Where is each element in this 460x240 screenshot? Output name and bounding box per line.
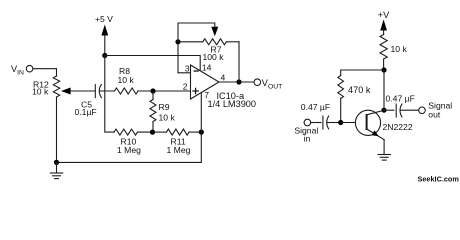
svg-text:SeekIC.com: SeekIC.com — [418, 175, 460, 184]
svg-text:1/4 LM3900: 1/4 LM3900 — [208, 99, 257, 109]
svg-text:0.47 µF: 0.47 µF — [301, 102, 330, 112]
svg-text:10 k: 10 k — [118, 75, 135, 85]
capacitor 0.47uF output — [384, 104, 419, 117]
resistor 10k element (right) — [380, 35, 387, 60]
svg-text:2N2222: 2N2222 — [383, 122, 413, 132]
wire base node to transistor — [341, 122, 367, 124]
wire +5V down to R10 (bias) — [105, 56, 114, 133]
label R12 value — [32, 80, 49, 97]
node Signal in terminal — [294, 119, 318, 143]
wire emitter to ground — [383, 140, 385, 155]
node R11/pin7/ground-rail junction — [199, 130, 204, 135]
wire R10 to node — [138, 131, 153, 133]
op-amp plus sign — [192, 88, 199, 95]
node Signal out terminal — [419, 101, 453, 120]
supply +V arrow — [378, 10, 390, 35]
wire bottom ground rail — [57, 132, 202, 162]
wire +5V rail to pin 14 — [105, 56, 200, 71]
wire VIN to R12 top — [33, 69, 57, 76]
svg-text:out: out — [428, 110, 441, 120]
op-amp minus sign — [194, 70, 199, 72]
resistor 470k element — [338, 76, 344, 99]
svg-text:in: in — [304, 133, 311, 143]
label R8 value — [118, 66, 135, 85]
wire 470k bottom to base node — [340, 99, 342, 123]
svg-text:0.1µF: 0.1µF — [75, 107, 97, 117]
resistor R10 element — [114, 129, 138, 135]
resistor R11 element — [153, 129, 202, 135]
svg-text:470 k: 470 k — [348, 85, 371, 95]
svg-text:+5 V: +5 V — [95, 14, 113, 24]
wire R12 bottom to ground rail — [56, 97, 58, 162]
svg-text:VIN: VIN — [11, 64, 24, 77]
node output junction — [236, 79, 241, 84]
label R9 value — [159, 102, 176, 123]
svg-text:14: 14 — [202, 62, 212, 72]
wire R8 to pin 2 — [138, 90, 191, 92]
node R8/R9/pin2 junction — [150, 88, 155, 93]
node VIN input terminal — [11, 64, 33, 77]
ground symbol right — [378, 155, 390, 161]
wire pin 3 to feedback node — [178, 42, 191, 73]
svg-text:VOUT: VOUT — [262, 78, 283, 91]
resistor R12 10k potentiometer element — [53, 76, 59, 97]
wire pin 7 down — [200, 92, 202, 132]
wire 10k to collector node — [383, 59, 385, 70]
svg-text:1 Meg: 1 Meg — [167, 145, 191, 155]
svg-text:0.47 µF: 0.47 µF — [386, 94, 415, 104]
label IC10-a 1/4 LM3900 — [208, 91, 257, 109]
node collector top junction — [381, 67, 386, 72]
svg-text:2: 2 — [183, 82, 188, 92]
svg-text:1 Meg: 1 Meg — [117, 145, 141, 155]
node collector/output-cap junction — [381, 108, 386, 113]
wire collector vertical — [383, 70, 385, 110]
label C5 value — [75, 100, 97, 117]
node feedback/R7 left junction — [175, 39, 180, 44]
svg-text:10 k: 10 k — [391, 44, 408, 54]
label R11 value — [167, 137, 191, 156]
svg-text:+V: +V — [378, 10, 390, 20]
capacitor 0.47uF input — [311, 116, 341, 129]
capacitor C5 — [95, 85, 114, 98]
svg-text:3: 3 — [185, 63, 190, 73]
node R9/R10/R11 junction — [150, 130, 155, 135]
R7 wiper arm loop — [178, 23, 218, 42]
resistor R8 element — [115, 88, 139, 94]
op-amp U IC10-a triangle — [191, 65, 220, 99]
svg-text:R9: R9 — [159, 102, 170, 112]
wire feedback vertical — [238, 42, 240, 82]
transistor Q 2N2222 — [355, 110, 384, 139]
wire collector node to 470k top — [341, 70, 384, 76]
label R7 value — [203, 45, 225, 63]
node VOUT terminal — [254, 78, 282, 91]
node base junction — [338, 120, 343, 125]
label R10 value — [117, 137, 141, 156]
svg-text:10 k: 10 k — [32, 87, 49, 97]
svg-text:100 k: 100 k — [203, 52, 225, 62]
svg-text:10 k: 10 k — [159, 113, 176, 123]
R12 wiper arrow — [61, 88, 95, 95]
resistor R7 element — [178, 39, 239, 45]
node ground rail / R12 junction — [54, 160, 59, 165]
resistor R9 element — [150, 91, 156, 132]
node +5V junction — [102, 53, 107, 58]
wire output pin 4 — [219, 81, 254, 83]
ground symbol left — [50, 162, 62, 178]
svg-text:4: 4 — [221, 72, 226, 82]
supply +5V arrow — [95, 14, 113, 56]
